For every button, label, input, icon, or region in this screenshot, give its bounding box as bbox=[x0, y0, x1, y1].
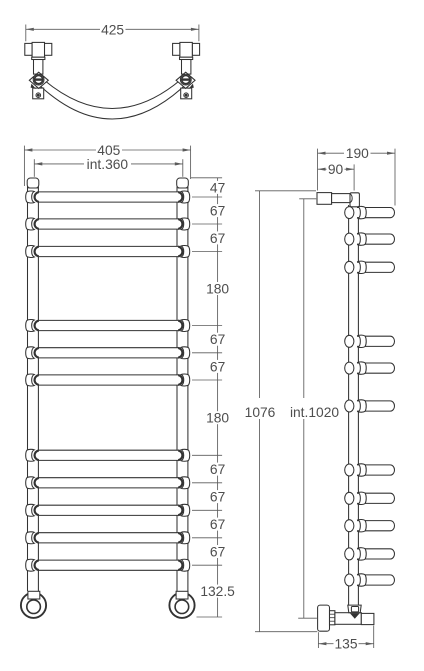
svg-text:90: 90 bbox=[328, 162, 344, 177]
right mounting plate bbox=[181, 88, 192, 99]
front towel bar 10 left end cap bbox=[35, 533, 39, 543]
front right vertical rail bbox=[176, 186, 178, 591]
dimension 1076 bottom extension bbox=[255, 631, 317, 633]
front towel bar 11 right collar bbox=[181, 559, 190, 571]
front towel bar 5 right collar bbox=[181, 347, 190, 359]
dimension 135 extension line left bbox=[317, 632, 319, 648]
dimension line 90 bbox=[318, 168, 327, 170]
chain extension line at bar 3 bbox=[192, 251, 222, 253]
front towel bar 9 right collar bbox=[181, 504, 190, 516]
side bar 7 collar bbox=[358, 464, 366, 476]
side view rail tube bbox=[348, 205, 350, 605]
side bar 2 tube bbox=[357, 234, 395, 244]
svg-text:405: 405 bbox=[97, 143, 120, 158]
dimension 135 extension line right bbox=[373, 626, 375, 649]
chain label 47 at y=187.4 bbox=[208, 181, 227, 194]
front towel bar 5 right end cap bbox=[178, 348, 182, 358]
chain extension line at rail top bbox=[191, 177, 222, 179]
chain label 180 at y=417.7 bbox=[204, 411, 231, 424]
front towel bar 2 right end cap bbox=[178, 219, 182, 229]
side bar 11 collar bbox=[358, 574, 366, 586]
front towel bar 6 right end cap bbox=[178, 375, 182, 385]
chain extension line at bar 9 bbox=[192, 509, 222, 511]
chain label 67 at y=210.6 bbox=[208, 204, 227, 217]
side bar 1 ball joint bbox=[345, 207, 354, 219]
dimension 190 extension line right bbox=[394, 149, 396, 206]
side bar 6 ball joint bbox=[345, 400, 354, 412]
side bar 7 ball joint bbox=[345, 464, 354, 476]
front towel bar 3 right collar bbox=[181, 246, 190, 258]
chain label 132.5 at y=591.1 bbox=[196, 585, 239, 598]
right plate bolt bbox=[184, 93, 189, 98]
front towel bar 4 tube bbox=[35, 320, 181, 330]
side bar 1 tube bbox=[357, 208, 395, 218]
front towel bar 1 right end cap bbox=[178, 192, 182, 202]
side bar 2 ball joint bbox=[345, 233, 354, 245]
side bar 8 ball joint bbox=[345, 492, 354, 504]
side bar 4 collar bbox=[358, 335, 366, 347]
svg-text:67: 67 bbox=[210, 359, 225, 374]
front towel bar 3 right end cap bbox=[178, 247, 182, 257]
dimension 425 extension line left bbox=[25, 25, 27, 42]
side bar 9 tube bbox=[357, 521, 395, 531]
front towel bar 4 right end cap bbox=[178, 321, 182, 331]
side view inlet pipe bbox=[332, 194, 351, 203]
dimension int.360 extension line left bbox=[33, 159, 35, 177]
front left foot sleeve bbox=[28, 591, 40, 599]
svg-text:135: 135 bbox=[334, 637, 357, 652]
front left foot escutcheon bbox=[21, 593, 46, 618]
side bar 4 ball joint bbox=[345, 335, 354, 347]
side bar 4 tube bbox=[357, 336, 395, 346]
right T-fitting body bbox=[180, 42, 192, 57]
front right foot sleeve bbox=[176, 591, 188, 599]
front right rail top cap bbox=[177, 178, 189, 188]
side bar 10 tube bbox=[357, 549, 395, 559]
side bar 7 tube bbox=[357, 465, 395, 475]
front towel bar 2 left end cap bbox=[35, 219, 39, 229]
front towel bar 8 right end cap bbox=[178, 478, 182, 488]
front towel bar 9 right end cap bbox=[178, 505, 182, 515]
chain label 67 at y=237.9 bbox=[208, 231, 227, 244]
svg-text:67: 67 bbox=[210, 332, 225, 347]
dimension 1076 top extension bbox=[255, 190, 316, 192]
dimension line int.360 bbox=[34, 163, 84, 165]
side view rail top elbow bbox=[350, 193, 359, 207]
svg-text:180: 180 bbox=[206, 282, 229, 297]
front towel bar 11 tube bbox=[35, 560, 181, 570]
side bar 8 tube bbox=[357, 493, 394, 503]
right fitting flange ring bbox=[180, 57, 193, 59]
front towel bar 7 left collar bbox=[26, 449, 35, 461]
side bottom valve V mark bbox=[350, 613, 360, 619]
front towel bar 6 right collar bbox=[181, 374, 190, 386]
left bracket clamp mark bbox=[31, 84, 36, 89]
dimension 405 extension line left bbox=[23, 146, 25, 186]
front towel bar 9 tube bbox=[35, 505, 181, 515]
side bar 9 collar bbox=[358, 520, 366, 532]
right screw head outer circle bbox=[180, 74, 191, 85]
side bar 6 collar bbox=[358, 400, 366, 412]
chain extension line at bar 1 bbox=[192, 196, 222, 198]
front towel bar 5 tube bbox=[35, 348, 181, 358]
chain label 180 at y=288.5 bbox=[204, 282, 231, 295]
front towel bar 3 left end cap bbox=[35, 247, 39, 257]
front towel bar 11 right end cap bbox=[178, 560, 182, 570]
side bar 6 tube bbox=[357, 401, 395, 411]
front towel bar 1 left collar bbox=[26, 191, 35, 203]
chain label 67 at y=524.1 bbox=[208, 518, 227, 531]
right bracket diamond bbox=[176, 72, 195, 88]
side bottom valve nut bbox=[348, 605, 361, 613]
front towel bar 3 tube bbox=[35, 246, 181, 256]
front towel bar 5 left collar bbox=[26, 347, 35, 359]
front towel bar 11 left collar bbox=[26, 559, 35, 571]
left fitting flange ring bbox=[32, 57, 45, 59]
svg-text:67: 67 bbox=[210, 462, 225, 477]
dimension int.1020 bottom extension bbox=[298, 617, 317, 619]
dimension int.1020 line bbox=[303, 199, 305, 398]
left screw slot bbox=[35, 78, 43, 80]
left T-fitting side wing B bbox=[45, 43, 52, 55]
front towel bar 7 left end cap bbox=[35, 450, 39, 460]
chain extension line at bar 4 bbox=[192, 325, 222, 327]
right wall bracket pipe (plan) bbox=[182, 57, 191, 74]
side bar 11 tube bbox=[357, 575, 394, 585]
chain extension line at bar 7 bbox=[192, 454, 222, 456]
front towel bar 7 right collar bbox=[181, 449, 190, 461]
svg-text:47: 47 bbox=[210, 180, 225, 195]
dimension line 190 bbox=[318, 152, 345, 154]
left T-fitting side wing A bbox=[25, 43, 32, 55]
side view wall connection block bbox=[317, 193, 332, 205]
svg-text:int.1020: int.1020 bbox=[290, 405, 339, 420]
front towel bar 3 left collar bbox=[26, 246, 35, 258]
front towel bar 2 left collar bbox=[26, 218, 35, 230]
chain extension line at bar 10 bbox=[192, 537, 222, 539]
dimension line 425 bbox=[26, 28, 100, 30]
chain label 67 at y=366.4 bbox=[208, 360, 227, 373]
front towel bar 10 right end cap bbox=[178, 533, 182, 543]
svg-text:1076: 1076 bbox=[245, 405, 276, 420]
front left vertical rail bbox=[27, 186, 29, 591]
side bar 8 collar bbox=[358, 492, 366, 504]
side bottom ridged adapter bbox=[330, 611, 335, 625]
front towel bar 5 left end cap bbox=[35, 348, 39, 358]
label int.1020 bbox=[288, 402, 342, 416]
curved towel bar (plan view band) bbox=[36, 80, 188, 119]
svg-text:67: 67 bbox=[210, 231, 225, 246]
dimension 190 extension line left bbox=[317, 149, 319, 191]
right screw slot bbox=[182, 78, 190, 80]
dimension int.360 extension line right bbox=[182, 159, 184, 177]
front left foot inner ring bbox=[27, 600, 41, 614]
front towel bar 10 tube bbox=[35, 533, 181, 543]
right T-fitting side wing A bbox=[192, 43, 199, 55]
front towel bar 9 left end cap bbox=[35, 505, 39, 515]
svg-text:67: 67 bbox=[210, 545, 225, 560]
dimension line 405 bbox=[24, 149, 96, 151]
label 1076 bbox=[243, 402, 277, 416]
front towel bar 7 tube bbox=[35, 450, 181, 460]
front right foot escutcheon bbox=[169, 593, 194, 618]
side bar 11 ball joint bbox=[345, 574, 354, 586]
svg-text:132.5: 132.5 bbox=[200, 584, 235, 599]
left screw head inner circle bbox=[35, 76, 43, 84]
dimension line 135 bbox=[318, 643, 333, 645]
front left rail top cap bbox=[27, 178, 39, 188]
side bar 3 tube bbox=[357, 262, 395, 272]
side bar 10 collar bbox=[358, 548, 366, 560]
svg-text:67: 67 bbox=[210, 490, 225, 505]
svg-text:67: 67 bbox=[210, 204, 225, 219]
side bar 9 ball joint bbox=[345, 520, 354, 532]
left plate bolt bbox=[36, 93, 41, 98]
right T-fitting side wing B bbox=[173, 43, 180, 55]
front towel bar 1 tube bbox=[35, 192, 181, 202]
side bottom valve body bbox=[335, 613, 361, 625]
front towel bar 11 left end cap bbox=[35, 560, 39, 570]
front towel bar 8 right collar bbox=[181, 477, 190, 489]
front towel bar 1 left end cap bbox=[35, 192, 39, 202]
svg-text:int.360: int.360 bbox=[87, 157, 129, 172]
chain extension line at bar 11 bbox=[192, 564, 222, 566]
svg-text:180: 180 bbox=[206, 411, 229, 426]
left T-fitting body bbox=[32, 42, 44, 57]
dimension 1076 line bbox=[259, 191, 261, 398]
front towel bar 4 right collar bbox=[181, 320, 190, 332]
left mounting plate bbox=[33, 88, 44, 99]
dimension 405 extension line right bbox=[190, 146, 192, 179]
front towel bar 1 right collar bbox=[181, 191, 190, 203]
svg-text:425: 425 bbox=[101, 22, 124, 37]
svg-text:67: 67 bbox=[210, 517, 225, 532]
front right foot inner ring bbox=[175, 600, 189, 614]
side bar 5 ball joint bbox=[345, 362, 354, 374]
dimension int.1020 top extension bbox=[299, 198, 316, 200]
chain extension line at bar 8 bbox=[192, 482, 222, 484]
vertical dimension chain line bbox=[217, 178, 219, 617]
chain label 67 at y=551.5 bbox=[208, 545, 227, 558]
right screw head inner circle bbox=[182, 76, 190, 84]
side bar 5 tube bbox=[357, 363, 395, 373]
left screw head outer circle bbox=[33, 74, 44, 85]
right bracket clamp mark bbox=[189, 84, 194, 89]
side bar 1 collar bbox=[358, 206, 366, 218]
side bar 5 collar bbox=[358, 362, 366, 374]
front towel bar 4 left end cap bbox=[35, 321, 39, 331]
front towel bar 6 left collar bbox=[26, 374, 35, 386]
front towel bar 10 left collar bbox=[26, 532, 35, 544]
dimension 425 extension line right bbox=[198, 25, 200, 42]
front towel bar 8 left collar bbox=[26, 477, 35, 489]
front towel bar 8 tube bbox=[35, 478, 181, 488]
front towel bar 9 left collar bbox=[26, 504, 35, 516]
chain extension line at radiator bottom bbox=[197, 616, 223, 618]
left bracket diamond bbox=[29, 72, 48, 88]
front towel bar 4 left collar bbox=[26, 320, 35, 332]
side bar 3 collar bbox=[358, 261, 366, 273]
chain label 67 at y=469.1 bbox=[208, 463, 227, 476]
front towel bar 2 right collar bbox=[181, 218, 190, 230]
dimension 90 extension line right bbox=[353, 164, 355, 190]
svg-text:190: 190 bbox=[346, 146, 369, 161]
side bottom outlet pipe bbox=[361, 613, 374, 624]
front towel bar 8 left end cap bbox=[35, 478, 39, 488]
left wall bracket pipe (plan) bbox=[34, 57, 43, 74]
side bottom valve stem cap bbox=[351, 607, 358, 612]
front towel bar 6 tube bbox=[35, 375, 181, 385]
side bottom flange disc bbox=[318, 605, 330, 631]
side bar 3 ball joint bbox=[345, 261, 354, 273]
front towel bar 7 right end cap bbox=[178, 450, 182, 460]
chain extension line at bar 2 bbox=[192, 223, 222, 225]
front towel bar 2 tube bbox=[35, 219, 181, 229]
chain extension line at bar 5 bbox=[192, 352, 222, 354]
side bar 2 collar bbox=[358, 233, 366, 245]
chain extension line at bar 6 bbox=[192, 379, 222, 381]
chain label 67 at y=339.2 bbox=[208, 333, 227, 346]
side bar 10 ball joint bbox=[345, 548, 354, 560]
chain label 67 at y=496.6 bbox=[208, 490, 227, 503]
front towel bar 6 left end cap bbox=[35, 375, 39, 385]
front towel bar 10 right collar bbox=[181, 532, 190, 544]
